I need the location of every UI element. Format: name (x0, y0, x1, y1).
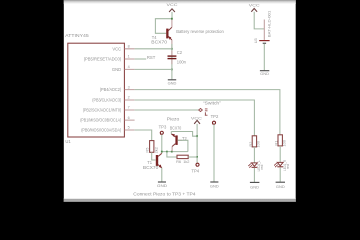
svg-text:ATTINY45: ATTINY45 (65, 33, 89, 38)
wire VCC stem (196, 124, 198, 136)
svg-text:U3: U3 (253, 38, 258, 43)
svg-text:100: 100 (282, 139, 287, 146)
svg-text:RST: RST (147, 55, 156, 60)
svg-text:BCX70: BCX70 (151, 40, 168, 45)
IC U1 ATTINY45 box (68, 43, 125, 137)
node VCC junction (196, 135, 198, 137)
ground (C2) (168, 79, 176, 81)
svg-text:100n: 100n (177, 59, 187, 64)
transistor T4 (166, 29, 168, 39)
wire R6 jog from piezo row (167, 152, 177, 157)
svg-text:VCC: VCC (112, 46, 121, 51)
wire LED2 to GND (253, 168, 255, 183)
wire R6 to VCC column (188, 156, 197, 158)
wire pin4 GND (135, 68, 172, 70)
svg-text:U1: U1 (65, 139, 71, 144)
ground (LED2) (250, 181, 260, 183)
svg-text:BAT-HLD-001: BAT-HLD-001 (266, 11, 271, 38)
svg-text:GND: GND (210, 183, 219, 188)
ground (TP2) (210, 181, 218, 183)
wire pin2 to R2 column (135, 100, 255, 136)
wire pin5 to R5 (135, 130, 152, 141)
wire T4 emitter to C2 to GND (171, 44, 173, 79)
wire VCC stem to node (171, 12, 173, 19)
svg-text:5: 5 (128, 126, 130, 130)
svg-text:TP3: TP3 (159, 124, 167, 129)
wire pin1 RST (135, 58, 147, 60)
wire battery to GND (263, 44, 265, 71)
capacitor C2 (171, 51, 173, 65)
wire T2 emitter to VCC (171, 132, 197, 137)
resistor R5 2k2 (150, 141, 154, 153)
wire R1 to LED1 (279, 146, 281, 163)
svg-text:“Switch”: “Switch” (203, 100, 222, 105)
svg-text:6: 6 (128, 116, 130, 120)
wire piezo row (162, 151, 188, 153)
svg-text:7: 7 (128, 106, 130, 110)
svg-text:(PB3/CLK/ADC3): (PB3/CLK/ADC3) (92, 98, 122, 103)
svg-text:1: 1 (128, 55, 130, 59)
svg-text:C2: C2 (177, 50, 183, 55)
test point TP4 (196, 157, 198, 163)
svg-text:GND: GND (276, 184, 285, 189)
svg-text:3: 3 (128, 85, 130, 89)
battery U3 pin (263, 20, 265, 40)
IC pin stubs (125, 49, 135, 130)
svg-text:R6: R6 (176, 159, 181, 164)
wire VCC to battery (254, 12, 264, 29)
node TP4 junction (196, 156, 198, 158)
LED1 (277, 162, 283, 165)
battery U3 BAT-HLD-001 (259, 40, 269, 41)
svg-text:(PB5/RESET/ADC0): (PB5/RESET/ADC0) (84, 57, 122, 62)
wire TP3 stem (161, 135, 163, 152)
ground (LED1) (276, 181, 285, 183)
svg-text:Battery reverse protection: Battery reverse protection (176, 29, 224, 34)
pin numbers (128, 45, 130, 130)
svg-text:100: 100 (256, 140, 261, 147)
svg-text:TP2: TP2 (211, 114, 219, 119)
svg-text:2k2: 2k2 (153, 147, 158, 153)
LED2 (252, 163, 258, 166)
svg-text:TP4: TP4 (191, 169, 199, 174)
wire VCC column down (196, 136, 198, 157)
svg-text:2: 2 (128, 96, 130, 100)
resistor R6 1k2 (177, 155, 188, 158)
svg-text:Piezo: Piezo (167, 116, 180, 121)
svg-text:GND: GND (260, 71, 269, 76)
svg-text:(PB4/ADC2): (PB4/ADC2) (100, 87, 122, 92)
wire TP2 to GND (213, 125, 215, 182)
svg-text:red: red (286, 164, 290, 169)
wire T1 emitter to GND (161, 168, 163, 182)
node piezo row junctions (161, 151, 163, 153)
svg-text:(PB2/SCK/ADC1/INT0): (PB2/SCK/ADC1/INT0) (83, 107, 122, 112)
svg-text:R1: R1 (274, 141, 279, 146)
svg-text:(PB0/MOSI/OC0A/SDA): (PB0/MOSI/OC0A/SDA) (81, 128, 122, 133)
svg-text:4: 4 (128, 65, 130, 69)
svg-text:VCC: VCC (249, 2, 260, 7)
svg-text:BCX70: BCX70 (170, 126, 182, 131)
resistor R2 100 (252, 136, 256, 147)
svg-text:R5: R5 (144, 148, 149, 153)
wire pin8 VCC (135, 48, 172, 50)
wire R5 to T1 base (152, 152, 156, 160)
node pin8/VCC junction (171, 18, 173, 20)
resistor R1 100 (278, 135, 282, 146)
wire R2 to LED2 (253, 147, 255, 163)
white schematic sheet (64, 0, 296, 202)
wire pin3 to R1 column (135, 90, 280, 135)
wire T4 base loop (155, 19, 172, 34)
svg-text:GND: GND (157, 183, 167, 188)
svg-text:GND: GND (168, 80, 177, 85)
svg-text:VCC: VCC (167, 2, 178, 7)
svg-text:R2: R2 (248, 142, 253, 147)
svg-text:8: 8 (128, 45, 130, 49)
wire LED1 to GND (279, 167, 281, 182)
svg-text:Connect Piezo to TP3 + TP4: Connect Piezo to TP3 + TP4 (133, 192, 196, 197)
svg-text:1k2: 1k2 (183, 159, 189, 164)
wire T2 base loop (178, 140, 188, 151)
svg-text:(PB1/MISO/OC0B/OC1A): (PB1/MISO/OC0B/OC1A) (80, 118, 122, 123)
svg-text:GND: GND (112, 67, 121, 72)
svg-text:GND: GND (250, 184, 259, 189)
ground (T1) (158, 181, 166, 183)
svg-text:VCC: VCC (191, 115, 202, 120)
svg-text:BCX70: BCX70 (143, 165, 159, 170)
transistor T2 (175, 135, 177, 145)
transistor T1 (156, 155, 158, 166)
ground (battery) (260, 70, 269, 72)
svg-text:red: red (260, 165, 264, 170)
wire pin7 to switch (135, 109, 199, 111)
